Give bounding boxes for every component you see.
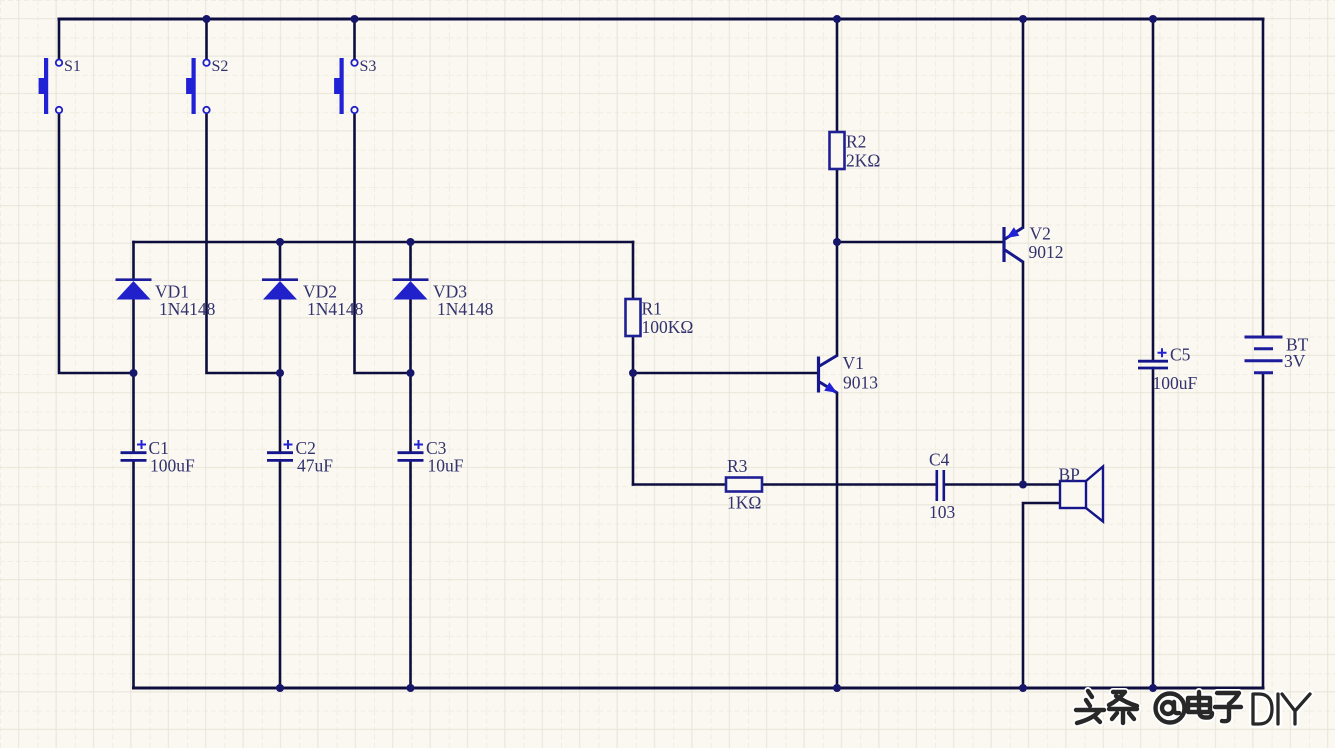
svg-text:C5: C5 — [1170, 345, 1191, 365]
svg-text:2KΩ: 2KΩ — [846, 151, 880, 171]
svg-text:100KΩ: 100KΩ — [642, 317, 694, 337]
svg-text:1N4148: 1N4148 — [307, 299, 364, 319]
svg-text:R2: R2 — [846, 132, 866, 152]
svg-text:103: 103 — [929, 502, 956, 522]
svg-text:10uF: 10uF — [428, 456, 464, 476]
svg-text:100uF: 100uF — [1153, 373, 1198, 393]
svg-text:3V: 3V — [1284, 351, 1306, 371]
svg-text:9012: 9012 — [1029, 242, 1064, 262]
svg-text:100uF: 100uF — [150, 456, 195, 476]
svg-text:R3: R3 — [727, 456, 748, 476]
svg-text:V1: V1 — [843, 353, 864, 373]
svg-text:R1: R1 — [642, 299, 662, 319]
svg-text:1N4148: 1N4148 — [437, 299, 494, 319]
svg-text:S3: S3 — [360, 58, 377, 75]
svg-text:9013: 9013 — [843, 373, 878, 393]
svg-text:C4: C4 — [929, 450, 950, 470]
svg-text:S2: S2 — [212, 58, 229, 75]
svg-text:1KΩ: 1KΩ — [727, 493, 761, 513]
svg-text:BP: BP — [1059, 465, 1081, 485]
svg-text:1N4148: 1N4148 — [159, 299, 216, 319]
svg-text:S1: S1 — [64, 58, 81, 75]
svg-text:V2: V2 — [1030, 224, 1051, 244]
svg-text:47uF: 47uF — [297, 456, 333, 476]
